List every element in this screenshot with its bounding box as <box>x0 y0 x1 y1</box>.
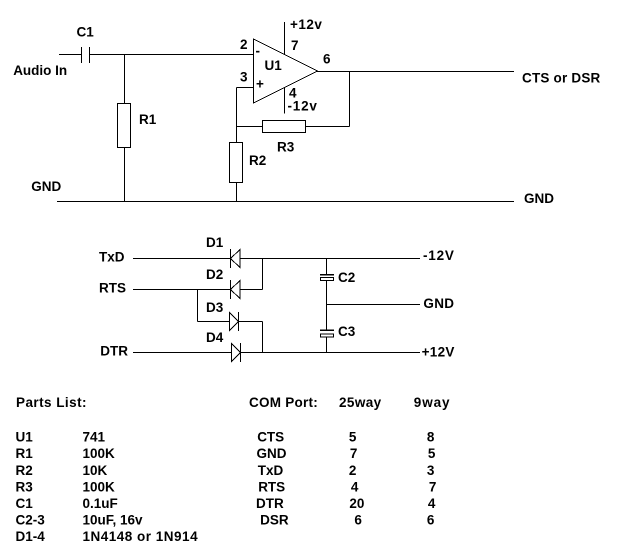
label TxD row <box>258 463 435 478</box>
svg-text:R3: R3 <box>16 479 34 494</box>
svg-text:U1: U1 <box>16 430 34 445</box>
svg-text:DTR: DTR <box>100 344 128 359</box>
svg-text:+12v: +12v <box>290 17 322 32</box>
svg-text:D1-4: D1-4 <box>16 529 46 544</box>
wire C1 to op-amp pin 2 <box>90 54 254 56</box>
wire pin 3 lead <box>237 87 254 89</box>
capacitor C2 <box>320 274 334 281</box>
svg-text:10uF, 16v: 10uF, 16v <box>83 512 144 527</box>
svg-text:D1: D1 <box>206 235 224 250</box>
label DSR row <box>260 512 435 527</box>
diode D3 <box>230 312 239 331</box>
wire pin3 to R2 node <box>236 88 238 143</box>
svg-text:6: 6 <box>354 512 362 527</box>
svg-text:20: 20 <box>349 496 364 511</box>
svg-text:741: 741 <box>83 430 106 445</box>
svg-text:Parts List:: Parts List: <box>16 395 87 410</box>
svg-text:D4: D4 <box>206 330 224 345</box>
svg-text:5: 5 <box>349 430 357 445</box>
svg-text:R2: R2 <box>16 463 33 478</box>
wire RTS to D3 drop <box>197 290 199 322</box>
resistor R3 <box>263 121 306 133</box>
wire junction down to R1 <box>124 55 126 105</box>
svg-text:CTS: CTS <box>257 430 284 445</box>
svg-text:C1: C1 <box>16 496 34 511</box>
svg-text:9way: 9way <box>414 395 451 410</box>
svg-text:GND: GND <box>257 446 287 461</box>
svg-text:U1: U1 <box>265 58 283 73</box>
wire audio-in lead <box>59 54 81 56</box>
diode D4 <box>232 343 241 362</box>
wire R3 left lead <box>237 126 263 128</box>
svg-text:-: - <box>256 44 261 59</box>
svg-text:R3: R3 <box>277 140 295 155</box>
label C2-3 row <box>16 512 144 527</box>
svg-text:C2-3: C2-3 <box>16 512 46 527</box>
svg-text:+12V: +12V <box>422 345 455 360</box>
svg-text:0.1uF: 0.1uF <box>83 496 118 511</box>
svg-text:2: 2 <box>240 37 248 52</box>
label R2 row <box>16 463 108 478</box>
svg-text:GND: GND <box>423 296 454 311</box>
svg-text:8: 8 <box>427 430 435 445</box>
svg-text:R1: R1 <box>16 446 34 461</box>
svg-text:5: 5 <box>428 446 436 461</box>
wire -12V line <box>240 258 420 260</box>
wire +12V line <box>241 352 421 354</box>
svg-text:TxD: TxD <box>258 463 284 478</box>
svg-text:C2: C2 <box>338 270 355 285</box>
svg-text:3: 3 <box>240 70 248 85</box>
svg-text:GND: GND <box>524 191 554 206</box>
svg-text:C3: C3 <box>338 324 356 339</box>
svg-text:7: 7 <box>291 38 299 53</box>
svg-text:6: 6 <box>323 52 331 67</box>
wire pin 4 supply <box>284 87 286 114</box>
label RTS row <box>258 479 436 494</box>
svg-text:D3: D3 <box>206 300 224 315</box>
wire RTS line <box>133 289 230 291</box>
label D1-4 row <box>16 529 199 544</box>
svg-text:Audio In: Audio In <box>13 63 67 78</box>
diode D2 <box>231 280 241 299</box>
resistor R1 <box>118 104 131 148</box>
wire D3 out <box>239 321 263 323</box>
svg-text:100K: 100K <box>83 479 116 494</box>
svg-text:4: 4 <box>351 479 359 494</box>
wire TxD line <box>133 258 230 260</box>
svg-text:CTS or DSR: CTS or DSR <box>522 71 601 86</box>
wire D2 out <box>240 289 263 291</box>
svg-text:-12V: -12V <box>423 248 455 263</box>
svg-text:+: + <box>256 77 264 92</box>
svg-text:3: 3 <box>427 463 435 478</box>
svg-text:6: 6 <box>427 512 435 527</box>
label R3 row <box>16 479 116 494</box>
svg-text:4: 4 <box>428 496 436 511</box>
label U1 row <box>16 430 106 445</box>
wire R2 to ground bus <box>236 183 238 202</box>
svg-text:COM Port:: COM Port: <box>249 395 318 410</box>
wire C3 top lead <box>326 305 328 330</box>
op-amp U1 <box>254 39 318 103</box>
wire output to CTS <box>317 71 514 73</box>
svg-text:7: 7 <box>429 479 437 494</box>
svg-text:10K: 10K <box>83 463 108 478</box>
wire ground bus <box>57 201 514 203</box>
label C1 row <box>16 496 118 511</box>
svg-text:2: 2 <box>349 463 357 478</box>
wire R1 to ground bus <box>124 148 126 202</box>
svg-text:25way: 25way <box>339 395 382 410</box>
wire C3 bottom lead <box>326 337 328 353</box>
label R1 row <box>16 446 116 461</box>
svg-text:100K: 100K <box>83 446 116 461</box>
svg-text:RTS: RTS <box>99 281 126 296</box>
svg-text:-12v: -12v <box>288 99 318 114</box>
wire pin 7 supply <box>284 22 286 55</box>
wire feedback drop <box>349 72 351 127</box>
svg-text:DTR: DTR <box>256 496 284 511</box>
svg-text:1N4148 or 1N914: 1N4148 or 1N914 <box>83 529 199 544</box>
label GND row <box>257 446 436 461</box>
label DTR row <box>256 496 436 511</box>
wire D1-D2 junction <box>262 259 264 290</box>
svg-text:R2: R2 <box>249 153 266 168</box>
wire D3 in <box>198 321 230 323</box>
wire D3-D4 junction <box>262 322 264 353</box>
diode D1 <box>231 249 241 268</box>
svg-text:DSR: DSR <box>260 512 289 527</box>
wire C2 top lead <box>326 259 328 275</box>
wire GND mid line <box>327 304 421 306</box>
label CTS row <box>257 430 435 445</box>
wire DTR line <box>133 352 232 354</box>
svg-text:GND: GND <box>31 179 61 194</box>
svg-text:RTS: RTS <box>258 479 285 494</box>
svg-text:C1: C1 <box>77 25 95 40</box>
svg-text:7: 7 <box>350 446 358 461</box>
wire R3 right lead <box>306 126 350 128</box>
resistor R2 <box>230 143 243 183</box>
svg-text:D2: D2 <box>206 267 223 282</box>
capacitor C3 <box>320 330 334 338</box>
capacitor C1 <box>82 47 90 63</box>
svg-text:TxD: TxD <box>99 250 125 265</box>
wire C2 bottom lead <box>326 281 328 305</box>
svg-text:R1: R1 <box>139 112 157 127</box>
